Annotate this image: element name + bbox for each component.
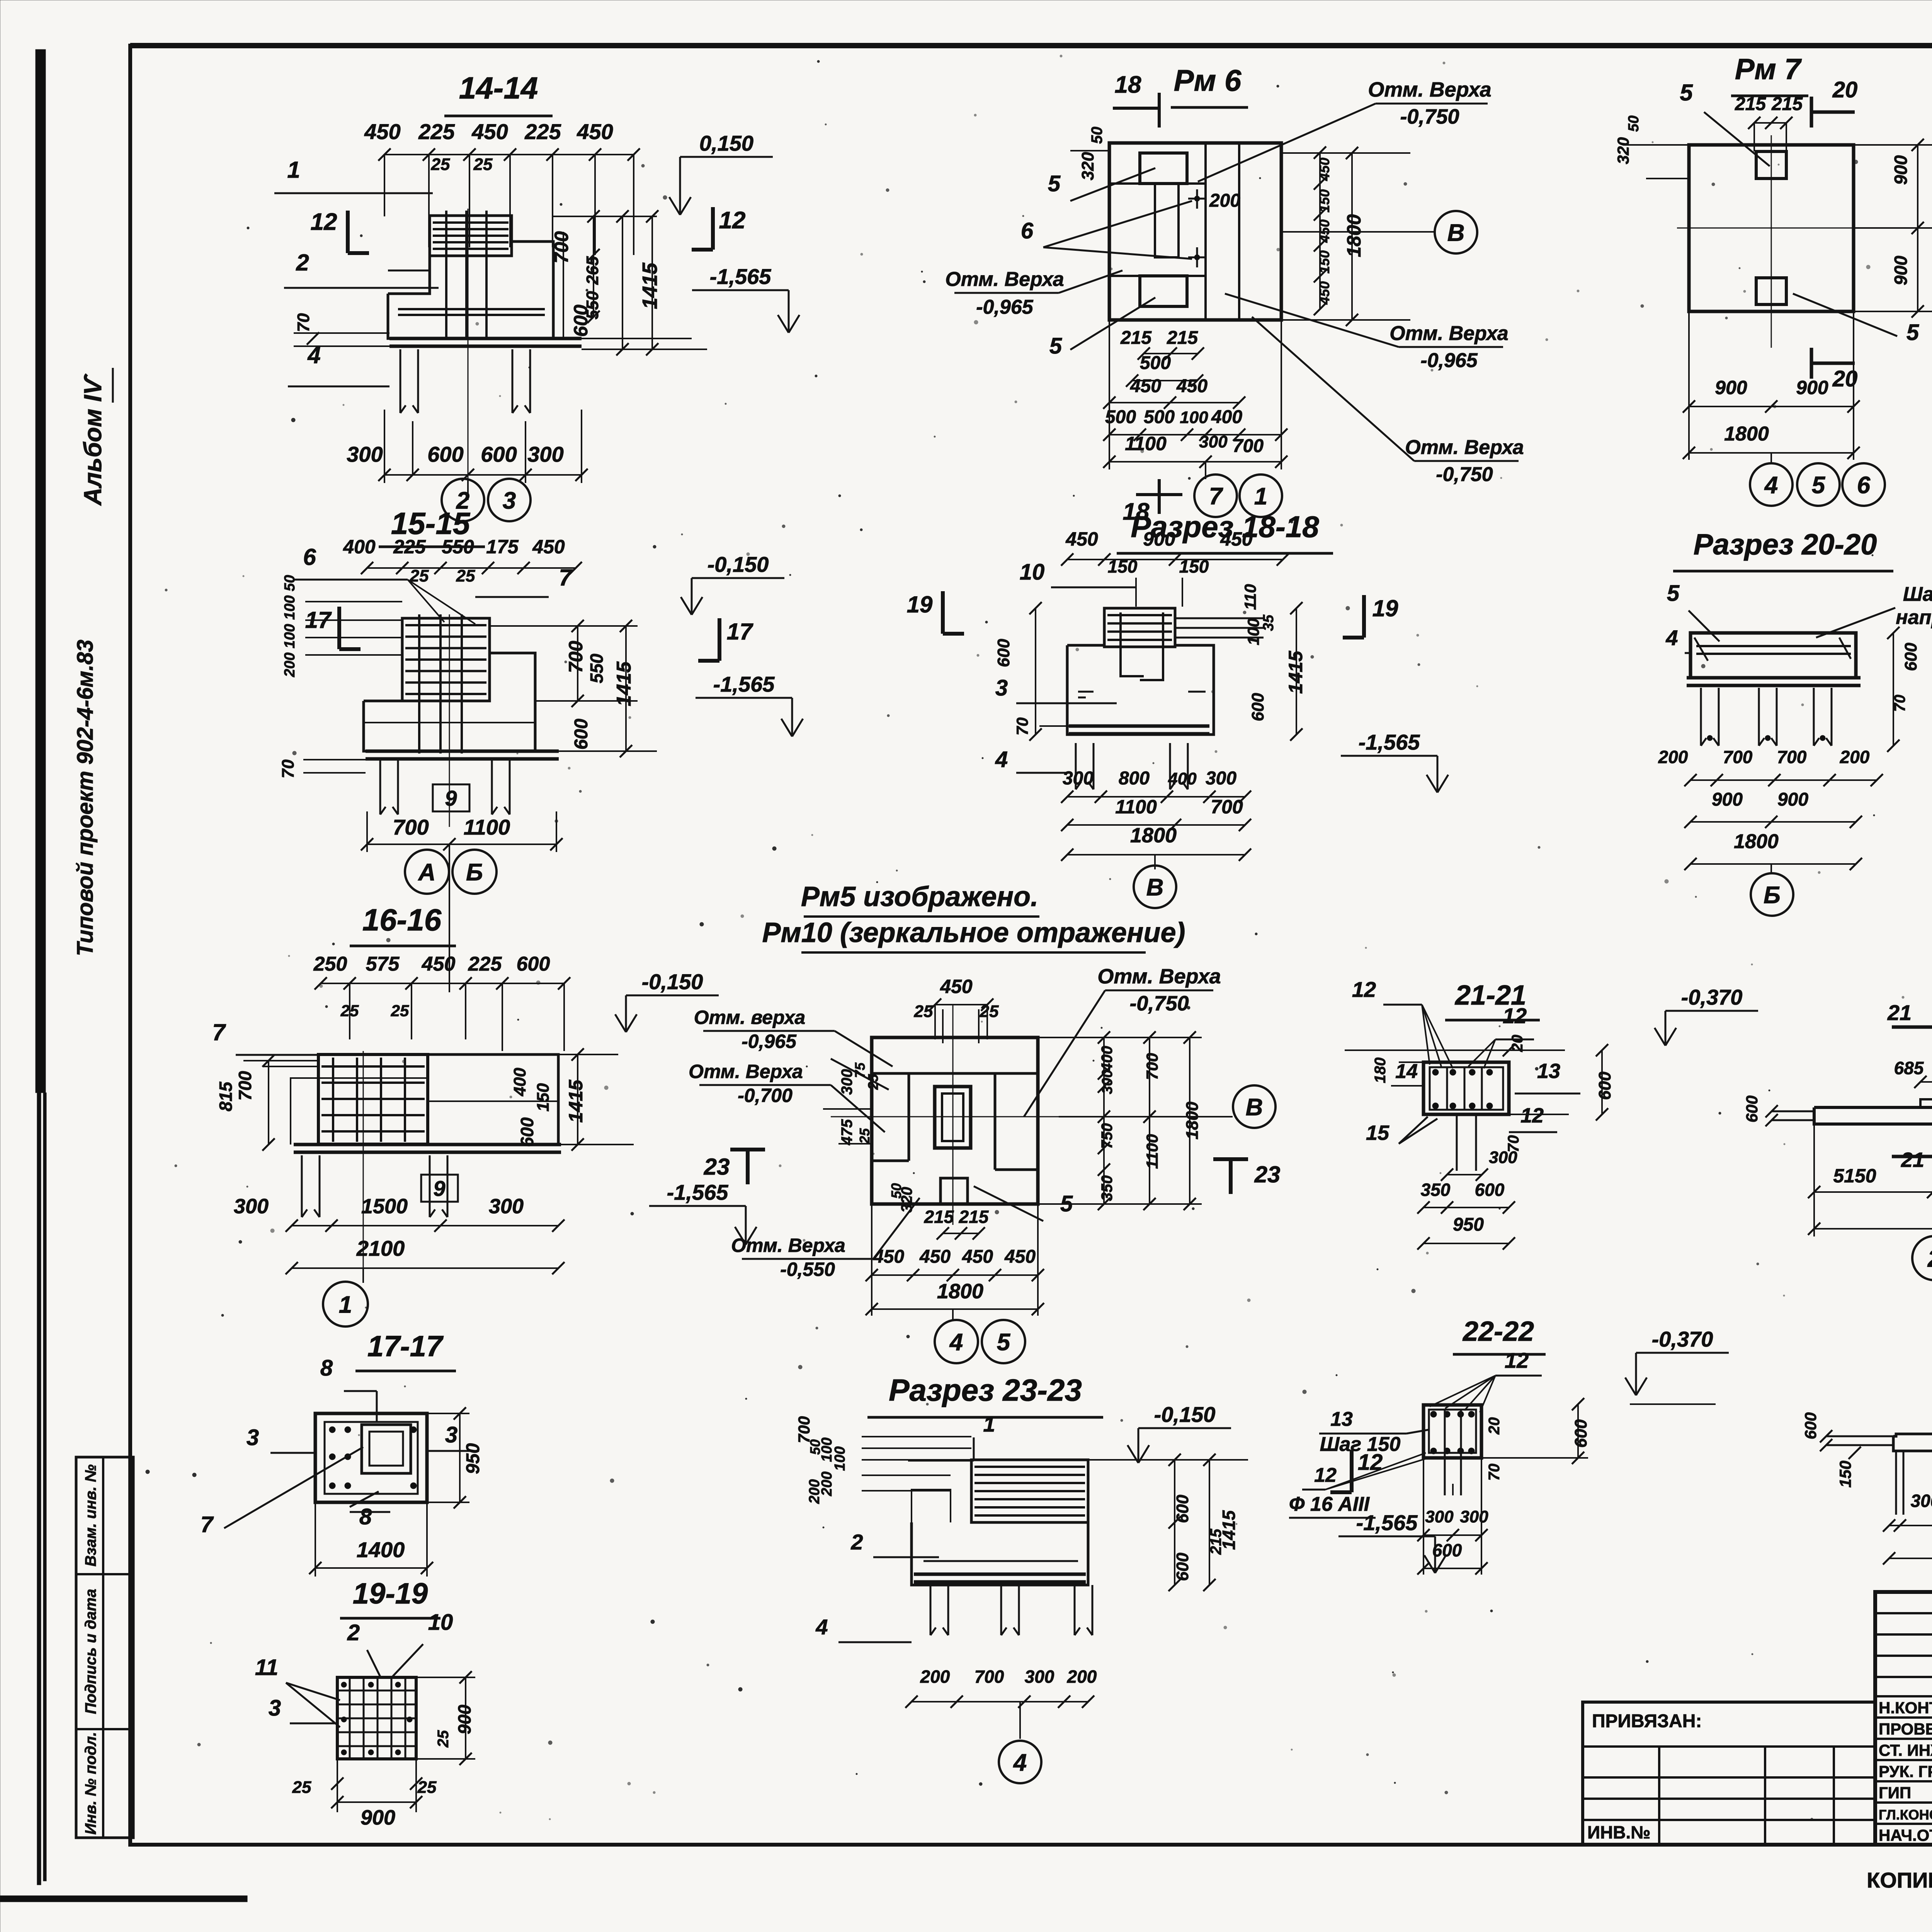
scan bottom-left black mark xyxy=(0,1896,247,1902)
svg-text:600: 600 xyxy=(1595,1071,1614,1100)
svg-text:400: 400 xyxy=(1099,1046,1116,1072)
svg-text:300: 300 xyxy=(347,442,383,466)
svg-text:225: 225 xyxy=(524,119,561,144)
title block empty row lines xyxy=(1875,1612,1932,1614)
Rm6 inner vertical lines xyxy=(1204,143,1207,320)
Rm9 beam bar xyxy=(1893,1434,1932,1451)
Rm8 left bump xyxy=(1920,1099,1932,1107)
plan grid circles 4 5 xyxy=(952,1309,954,1320)
svg-text:11: 11 xyxy=(255,1655,278,1680)
svg-text:215: 215 xyxy=(1120,328,1152,348)
svg-text:215: 215 xyxy=(1167,328,1198,348)
svg-text:5: 5 xyxy=(1048,171,1061,196)
svg-text:12: 12 xyxy=(1503,1003,1527,1028)
plan left column strip xyxy=(908,1073,910,1161)
14-14 pile right xyxy=(512,349,514,413)
svg-text:815: 815 xyxy=(216,1081,236,1111)
15-15 pile right xyxy=(491,760,493,815)
svg-text:Отм. верха: Отм. верха xyxy=(694,1007,805,1028)
svg-text:110: 110 xyxy=(1241,584,1259,610)
svg-text:200: 200 xyxy=(920,1667,950,1687)
Rm6 U shape xyxy=(1155,184,1179,257)
svg-text:600: 600 xyxy=(1743,1095,1761,1122)
svg-text:4: 4 xyxy=(1665,626,1678,650)
svg-text:12: 12 xyxy=(1314,1464,1337,1486)
svg-text:300: 300 xyxy=(234,1195,269,1218)
svg-text:225: 225 xyxy=(418,119,455,144)
svg-text:50: 50 xyxy=(1626,116,1642,132)
svg-text:300: 300 xyxy=(1099,1070,1116,1094)
svg-text:1800: 1800 xyxy=(1343,214,1365,257)
svg-text:3: 3 xyxy=(445,1422,457,1447)
svg-text:13: 13 xyxy=(1330,1408,1353,1430)
svg-text:25: 25 xyxy=(391,1002,409,1020)
svg-text:100: 100 xyxy=(1180,408,1208,427)
svg-text:ПРИВЯЗАН:: ПРИВЯЗАН: xyxy=(1592,1711,1702,1731)
svg-text:600: 600 xyxy=(1248,693,1267,721)
svg-text:600: 600 xyxy=(427,442,463,466)
svg-text:900: 900 xyxy=(361,1806,395,1829)
svg-text:Отм. Верха: Отм. Верха xyxy=(1405,436,1524,459)
svg-text:1800: 1800 xyxy=(937,1280,983,1303)
svg-text:8: 8 xyxy=(359,1504,372,1529)
svg-text:600: 600 xyxy=(1173,1553,1192,1581)
svg-text:19: 19 xyxy=(1372,595,1398,621)
svg-text:6: 6 xyxy=(1021,218,1034,243)
svg-text:400: 400 xyxy=(1168,769,1197,788)
svg-text:12: 12 xyxy=(311,209,337,235)
svg-text:350: 350 xyxy=(1099,1175,1116,1201)
21-21 top line xyxy=(1345,1049,1565,1051)
svg-text:6: 6 xyxy=(303,544,316,570)
svg-text:1415: 1415 xyxy=(1285,650,1306,694)
21-21 right dim 600 xyxy=(1601,1050,1603,1114)
16-16 grid circle 1 xyxy=(362,1268,364,1283)
18-18 section mark 19 left xyxy=(941,591,945,634)
svg-text:700: 700 xyxy=(565,641,587,673)
16-16 top dim line xyxy=(321,983,564,984)
title block signature rows xyxy=(1875,1695,1932,1697)
svg-text:320: 320 xyxy=(1614,137,1632,164)
left margin stamp boxes xyxy=(76,1457,133,1838)
svg-text:3: 3 xyxy=(247,1425,259,1450)
svg-text:300: 300 xyxy=(527,442,563,466)
plan right dim col 3 xyxy=(1189,1037,1190,1204)
svg-text:900: 900 xyxy=(1777,789,1808,810)
svg-text:500: 500 xyxy=(1144,407,1175,427)
svg-text:350: 350 xyxy=(1421,1180,1451,1200)
plan top band line xyxy=(872,1072,1038,1075)
svg-text:3: 3 xyxy=(269,1696,281,1721)
svg-text:100: 100 xyxy=(1244,618,1262,645)
svg-text:-0,150: -0,150 xyxy=(707,552,769,577)
svg-text:10: 10 xyxy=(1020,560,1045,585)
svg-text:25: 25 xyxy=(435,1730,452,1748)
svg-text:4: 4 xyxy=(1764,472,1778,498)
svg-text:200 100 100 50: 200 100 100 50 xyxy=(282,575,298,677)
svg-text:А: А xyxy=(418,859,436,886)
svg-text:19-19: 19-19 xyxy=(353,1577,428,1610)
16-16 slab xyxy=(294,1143,561,1146)
svg-text:-0,965: -0,965 xyxy=(976,296,1034,318)
svg-text:300: 300 xyxy=(1063,768,1094,789)
svg-text:10: 10 xyxy=(428,1610,453,1635)
23-23 grid circle 4 xyxy=(1019,1702,1021,1739)
svg-text:Рм10 (зеркальное отражение): Рм10 (зеркальное отражение) xyxy=(762,917,1185,948)
svg-text:180: 180 xyxy=(1372,1058,1389,1083)
Rm6 anchor crosses xyxy=(1196,189,1198,209)
svg-text:1100: 1100 xyxy=(1125,433,1167,454)
svg-text:450: 450 xyxy=(1316,281,1332,305)
svg-text:4: 4 xyxy=(995,747,1008,772)
svg-text:600: 600 xyxy=(1801,1412,1820,1439)
Rm7 right dims xyxy=(1917,145,1918,311)
svg-text:16-16: 16-16 xyxy=(362,903,442,937)
plan inner window xyxy=(935,1087,971,1148)
svg-text:ГИП: ГИП xyxy=(1879,1784,1911,1802)
svg-text:500: 500 xyxy=(1140,353,1171,373)
svg-text:4: 4 xyxy=(307,342,320,368)
plan bottom small square xyxy=(940,1178,968,1204)
plan leader to level left top xyxy=(831,1059,889,1090)
16-16 boxed 9 label xyxy=(421,1175,458,1202)
16-16 pile left xyxy=(301,1155,303,1217)
Rm6 inner horizontals xyxy=(1109,182,1206,185)
svg-text:Рм 7: Рм 7 xyxy=(1735,53,1802,86)
svg-text:25: 25 xyxy=(292,1778,311,1797)
svg-text:7: 7 xyxy=(1209,483,1223,510)
svg-text:1100: 1100 xyxy=(464,815,510,839)
plan right notch xyxy=(994,1073,997,1170)
privyazan box xyxy=(1583,1702,1875,1845)
svg-text:20: 20 xyxy=(1486,1417,1503,1435)
svg-text:13: 13 xyxy=(1537,1060,1560,1083)
20-20 beam xyxy=(1690,633,1856,678)
svg-text:Разрез 23-23: Разрез 23-23 xyxy=(889,1373,1082,1407)
svg-text:450: 450 xyxy=(919,1247,951,1267)
svg-text:ГЛ.КОНСТР: ГЛ.КОНСТР xyxy=(1879,1807,1932,1823)
svg-text:700: 700 xyxy=(393,815,429,839)
plan grid circle V right xyxy=(1233,1085,1276,1128)
svg-text:450: 450 xyxy=(532,536,565,558)
svg-text:-0,965: -0,965 xyxy=(1420,349,1478,372)
svg-text:450: 450 xyxy=(962,1247,993,1267)
svg-text:1: 1 xyxy=(1254,483,1267,510)
svg-text:20: 20 xyxy=(1832,77,1858,102)
svg-text:215: 215 xyxy=(1771,94,1803,114)
14-14 rebar horizontals in body xyxy=(398,308,545,310)
svg-text:25: 25 xyxy=(431,155,450,174)
svg-text:Б: Б xyxy=(466,859,483,886)
svg-text:12: 12 xyxy=(1352,977,1376,1002)
14-14 rebar verticals xyxy=(445,211,447,340)
svg-text:Подпись и дата: Подпись и дата xyxy=(82,1589,99,1714)
svg-text:Шаг 150: Шаг 150 xyxy=(1320,1433,1401,1456)
plan section mark 23 left xyxy=(746,1150,750,1184)
svg-text:4: 4 xyxy=(815,1615,828,1639)
svg-text:450: 450 xyxy=(422,953,456,975)
svg-text:950: 950 xyxy=(1453,1214,1484,1235)
svg-text:1415: 1415 xyxy=(565,1079,587,1122)
svg-text:250: 250 xyxy=(313,953,347,975)
svg-text:900: 900 xyxy=(1891,155,1911,185)
svg-text:700: 700 xyxy=(551,231,572,264)
svg-text:600: 600 xyxy=(571,719,592,750)
svg-text:150: 150 xyxy=(534,1083,553,1112)
svg-text:2: 2 xyxy=(1927,1245,1932,1272)
svg-text:1: 1 xyxy=(983,1412,995,1436)
23-23 slab xyxy=(914,1573,1086,1576)
svg-text:1100: 1100 xyxy=(1143,1134,1161,1169)
svg-text:-0,370: -0,370 xyxy=(1652,1327,1713,1351)
Rm6 right dim column xyxy=(1319,153,1321,309)
svg-text:300: 300 xyxy=(1199,432,1228,451)
svg-text:20: 20 xyxy=(1509,1035,1526,1053)
23-23 body xyxy=(912,1490,951,1522)
svg-text:19: 19 xyxy=(907,592,933,617)
Rm9 left extension xyxy=(1826,1435,1893,1437)
plan section mark 23 right xyxy=(1213,1157,1248,1161)
svg-text:1400: 1400 xyxy=(357,1537,405,1562)
svg-text:18: 18 xyxy=(1115,71,1141,98)
Rm6 grid circles 7 1 xyxy=(1205,462,1206,479)
svg-text:175: 175 xyxy=(486,536,519,558)
20-20 grid circle B xyxy=(1770,864,1772,873)
svg-text:9: 9 xyxy=(433,1176,445,1201)
svg-text:Отм. Верха: Отм. Верха xyxy=(689,1061,803,1082)
svg-text:300: 300 xyxy=(489,1195,524,1218)
svg-text:Разрез 20-20: Разрез 20-20 xyxy=(1694,528,1877,561)
svg-text:575: 575 xyxy=(366,953,400,975)
Rm7 grid circles 4 5 6 xyxy=(1770,453,1772,464)
svg-text:-1,565: -1,565 xyxy=(667,1180,729,1204)
svg-text:1800: 1800 xyxy=(1734,830,1779,853)
14-14 section mark 12 left xyxy=(346,211,350,253)
svg-text:50: 50 xyxy=(1088,127,1105,144)
svg-text:ПРОВЕР.: ПРОВЕР. xyxy=(1879,1720,1932,1738)
svg-text:200: 200 xyxy=(1067,1667,1097,1687)
svg-text:Отм. Верха: Отм. Верха xyxy=(945,268,1064,291)
svg-text:150: 150 xyxy=(1316,189,1332,213)
plan right dim col 2 xyxy=(1149,1037,1150,1204)
20-20 slab lines xyxy=(1687,676,1861,680)
svg-text:Альбом ІѴ: Альбом ІѴ xyxy=(79,373,107,506)
21-21 inner bars xyxy=(1446,1067,1448,1110)
svg-text:Отм. Верха: Отм. Верха xyxy=(1368,78,1491,101)
svg-text:5150: 5150 xyxy=(1833,1165,1876,1187)
svg-text:4: 4 xyxy=(949,1329,963,1355)
14-14 column with rebar xyxy=(430,216,512,256)
plan outer rect xyxy=(872,1037,1038,1204)
21-21 main rect xyxy=(1423,1062,1509,1114)
svg-text:700: 700 xyxy=(1211,796,1243,818)
svg-text:200: 200 xyxy=(1840,747,1870,767)
svg-text:550: 550 xyxy=(587,653,607,683)
21-21 bottom bars xyxy=(1456,1114,1458,1171)
svg-text:215: 215 xyxy=(959,1207,989,1227)
svg-text:475: 475 xyxy=(838,1119,855,1145)
svg-text:14: 14 xyxy=(1395,1060,1418,1083)
svg-text:265: 265 xyxy=(583,256,602,285)
svg-text:450: 450 xyxy=(471,119,508,144)
svg-text:150: 150 xyxy=(1108,556,1138,577)
svg-text:2100: 2100 xyxy=(356,1236,405,1260)
svg-text:25: 25 xyxy=(456,566,475,585)
svg-text:-1,565: -1,565 xyxy=(1359,730,1420,754)
14-14 section mark 12 right xyxy=(711,207,715,250)
Rm6 bottom-left pile square xyxy=(1140,276,1187,306)
14-14 pile left xyxy=(400,349,401,413)
svg-text:1800: 1800 xyxy=(1183,1102,1202,1139)
Rm7 top pile square xyxy=(1756,151,1786,179)
svg-text:-0,370: -0,370 xyxy=(1681,985,1743,1009)
svg-text:600: 600 xyxy=(994,639,1013,667)
svg-text:225: 225 xyxy=(393,536,426,558)
svg-text:7: 7 xyxy=(201,1512,214,1537)
svg-text:300: 300 xyxy=(1425,1507,1454,1526)
svg-text:450: 450 xyxy=(1065,528,1098,550)
svg-text:800: 800 xyxy=(1119,768,1150,789)
14-14 body xyxy=(388,241,553,338)
svg-text:450: 450 xyxy=(364,119,400,144)
svg-text:450: 450 xyxy=(1004,1247,1036,1267)
svg-text:100: 100 xyxy=(832,1446,848,1471)
svg-text:2: 2 xyxy=(850,1530,863,1554)
svg-text:-0,750: -0,750 xyxy=(1129,992,1189,1015)
plan bottom-left band xyxy=(872,1160,909,1162)
svg-text:450: 450 xyxy=(577,119,613,144)
svg-text:1500: 1500 xyxy=(361,1195,408,1218)
plan right dim col 1 xyxy=(1103,1037,1105,1204)
Rm7 centre lines xyxy=(1771,135,1772,348)
svg-text:В: В xyxy=(1447,219,1465,246)
svg-text:-0,150: -0,150 xyxy=(1154,1402,1216,1427)
svg-text:900: 900 xyxy=(1796,377,1828,398)
svg-text:25: 25 xyxy=(914,1002,933,1021)
16-16 pile right xyxy=(429,1155,431,1217)
svg-text:25: 25 xyxy=(980,1002,999,1021)
plan centre lines xyxy=(952,1005,954,1225)
20-20 piles xyxy=(1700,688,1702,746)
15-15 boxed 9 label xyxy=(433,784,469,811)
svg-text:1: 1 xyxy=(339,1291,352,1318)
15-15 column with rebar xyxy=(402,618,490,701)
svg-text:700: 700 xyxy=(1723,747,1753,767)
svg-text:450: 450 xyxy=(1130,376,1161,396)
svg-text:5: 5 xyxy=(1049,333,1062,359)
17-17 rebar dots xyxy=(329,1427,335,1433)
svg-text:12: 12 xyxy=(719,207,746,234)
svg-text:-0,700: -0,700 xyxy=(738,1085,793,1106)
svg-text:400: 400 xyxy=(510,1068,529,1097)
scan left edge black bar xyxy=(36,49,46,1093)
svg-text:Отм. Верха: Отм. Верха xyxy=(731,1235,845,1256)
svg-text:23: 23 xyxy=(704,1154,730,1180)
21-21 rebar dots xyxy=(1432,1069,1439,1075)
15-15 section mark 17 right xyxy=(718,618,721,661)
14-14 slab xyxy=(389,337,582,340)
svg-text:В: В xyxy=(1146,874,1164,901)
15-15 body xyxy=(364,653,535,751)
svg-text:215: 215 xyxy=(1735,94,1766,114)
svg-text:600: 600 xyxy=(1173,1495,1192,1523)
svg-text:21: 21 xyxy=(1887,1000,1912,1025)
svg-text:400: 400 xyxy=(1211,407,1242,427)
22-22 rebar dots xyxy=(1430,1411,1437,1417)
Rm6 outer square xyxy=(1109,143,1281,320)
18-18 column xyxy=(1104,608,1175,647)
svg-text:15: 15 xyxy=(1366,1121,1389,1145)
svg-text:215: 215 xyxy=(924,1207,954,1227)
Rm8 grid circles 2 3 xyxy=(1912,1236,1932,1280)
svg-text:300: 300 xyxy=(1025,1667,1054,1687)
svg-text:900: 900 xyxy=(1715,377,1747,398)
16-16 centre line xyxy=(363,1051,364,1275)
15-15 pile left xyxy=(379,760,381,815)
svg-text:8: 8 xyxy=(320,1355,333,1381)
svg-text:700: 700 xyxy=(795,1416,813,1443)
svg-text:-1,565: -1,565 xyxy=(713,672,775,696)
svg-text:600: 600 xyxy=(1901,643,1920,671)
svg-text:23: 23 xyxy=(1254,1162,1281,1187)
svg-text:7: 7 xyxy=(212,1019,226,1045)
svg-text:17-17: 17-17 xyxy=(367,1330,444,1363)
svg-text:17: 17 xyxy=(727,619,753,645)
svg-text:-0,750: -0,750 xyxy=(1436,463,1493,486)
svg-text:Н.КОНТР: Н.КОНТР xyxy=(1879,1699,1932,1717)
svg-text:В: В xyxy=(1246,1094,1263,1121)
svg-text:450: 450 xyxy=(1220,528,1253,550)
svg-text:900: 900 xyxy=(1143,528,1175,550)
svg-text:200: 200 xyxy=(806,1479,823,1504)
svg-text:300: 300 xyxy=(1911,1491,1932,1511)
svg-text:70: 70 xyxy=(1013,718,1031,736)
svg-text:600: 600 xyxy=(570,304,592,337)
Rm6 section mark 18 bottom xyxy=(1136,493,1182,496)
svg-text:6: 6 xyxy=(1857,472,1871,498)
Rm7 bottom pile square xyxy=(1756,278,1786,304)
16-16 body xyxy=(291,1054,428,1145)
svg-text:450: 450 xyxy=(873,1247,904,1267)
svg-text:22-22: 22-22 xyxy=(1462,1316,1534,1347)
svg-text:70: 70 xyxy=(294,313,313,332)
15-15 centre line xyxy=(449,614,450,827)
svg-text:Типовой проект 902-4-6м.83: Типовой проект 902-4-6м.83 xyxy=(73,639,98,956)
svg-text:21: 21 xyxy=(1901,1148,1924,1172)
15-15 rebar verticals xyxy=(418,614,420,753)
svg-text:450: 450 xyxy=(940,976,973,997)
svg-text:5: 5 xyxy=(1812,472,1826,498)
svg-text:450: 450 xyxy=(1176,376,1207,396)
Rm7 outer square xyxy=(1689,145,1854,311)
svg-text:700: 700 xyxy=(1143,1053,1161,1080)
svg-text:300: 300 xyxy=(1489,1148,1517,1167)
svg-text:685: 685 xyxy=(1894,1058,1924,1078)
svg-text:700: 700 xyxy=(1777,747,1807,767)
svg-text:150: 150 xyxy=(1836,1461,1854,1488)
svg-text:5: 5 xyxy=(1667,581,1680,606)
svg-text:150: 150 xyxy=(1179,556,1209,577)
svg-text:-0,750: -0,750 xyxy=(1400,105,1459,128)
svg-text:400: 400 xyxy=(343,536,376,558)
svg-text:450: 450 xyxy=(1316,158,1332,181)
svg-text:70: 70 xyxy=(279,759,298,778)
18-18 section mark 19 right xyxy=(1362,595,1366,638)
14-14 top dimension line xyxy=(384,154,634,155)
svg-text:СТ. ИНЖ.: СТ. ИНЖ. xyxy=(1879,1741,1932,1759)
svg-text:4: 4 xyxy=(1013,1749,1027,1776)
svg-text:3: 3 xyxy=(503,487,516,514)
